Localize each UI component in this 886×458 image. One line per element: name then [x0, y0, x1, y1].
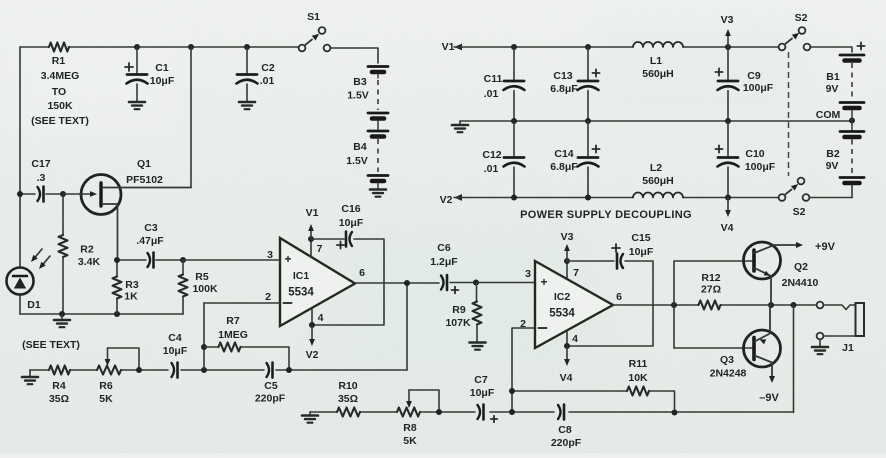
wire COM rail: [460, 118, 855, 125]
label C3: [136, 222, 164, 247]
node feedback join: [672, 410, 678, 416]
capacitor C12: [504, 121, 525, 197]
potentiometer R8: [397, 390, 439, 417]
label C4: [163, 332, 188, 357]
wire IC1 pin4: [311, 308, 313, 325]
node R6 out: [136, 367, 142, 373]
switch S2 lower: [779, 178, 810, 201]
capacitor C10: [715, 121, 738, 197]
ground C1: [129, 102, 145, 109]
jack J1 tip: [817, 302, 856, 310]
V4 arrow rail: [721, 198, 734, 235]
battery B4: [368, 120, 388, 181]
ground J1: [812, 340, 828, 355]
label R2: [78, 244, 101, 269]
wire bottom-left rail: [20, 311, 183, 317]
resistor R10: [337, 408, 360, 417]
label L2: [642, 162, 674, 187]
resistor R3: [113, 260, 122, 314]
ground R9: [470, 343, 486, 350]
label R9: [445, 304, 471, 329]
wire IC1 pin2: [204, 302, 280, 304]
label IC2 pin7: [573, 267, 579, 279]
V1 arrow IC1: [306, 207, 319, 239]
label power supply decoupling: [520, 209, 692, 221]
capacitor C1: [125, 47, 148, 101]
label S2 lower: [793, 206, 806, 218]
label R6: [99, 380, 113, 405]
resistor R12: [699, 301, 721, 310]
node R8 right: [436, 409, 442, 415]
node Q1 gate: [60, 191, 66, 197]
label Q3: [710, 354, 747, 380]
label C15: [629, 232, 654, 258]
label IC1 pin6: [359, 267, 365, 279]
label R8: [403, 422, 417, 447]
label C2: [260, 62, 275, 87]
label B2: [826, 148, 840, 172]
label C16: [339, 203, 364, 229]
inductor L2: [633, 193, 683, 198]
wire S1 to B3: [330, 48, 378, 63]
inductor L1: [633, 42, 683, 47]
capacitor C8: [558, 405, 564, 420]
node feedback out: [791, 302, 797, 308]
wire top PS rail: [462, 44, 779, 50]
label IC1 pin4: [318, 312, 324, 324]
wire feedback IC1: [406, 283, 408, 370]
battery B2: [840, 132, 864, 184]
wire IC2 pin7: [566, 261, 568, 278]
op-amp IC2: [535, 261, 613, 348]
label C1: [150, 62, 175, 87]
wire Q1 drain up: [190, 47, 192, 188]
label R10: [338, 380, 358, 405]
wire IC1 pin3: [183, 259, 280, 261]
transistor Q3: [744, 305, 781, 383]
node C5 right: [286, 367, 292, 373]
op-amp IC1: [280, 238, 355, 326]
capacitor C15: [567, 244, 653, 346]
ground B4: [370, 183, 386, 197]
capacitor C4: [172, 363, 178, 378]
node C17 left: [17, 191, 23, 197]
label C17: [31, 158, 50, 184]
label C12: [482, 149, 501, 175]
ground C2: [239, 102, 255, 109]
resistor R9: [473, 283, 482, 342]
label COM: [816, 109, 841, 121]
wire C7C8 row: [439, 305, 794, 413]
label C7: [470, 374, 495, 399]
label B4: [346, 141, 368, 167]
wire driver base vertical: [673, 261, 675, 348]
wire S2 to B1: [810, 42, 865, 52]
label IC2 pin2: [520, 318, 526, 330]
capacitor C11: [504, 47, 525, 121]
capacitor C5: [267, 363, 273, 378]
label C13: [550, 70, 578, 95]
label D1: [27, 299, 41, 311]
label see-text-2: [22, 339, 80, 351]
label IC2 pin3: [525, 268, 531, 280]
label S1: [307, 11, 320, 23]
capacitor C3: [117, 253, 183, 268]
capacitor C17: [20, 187, 60, 202]
label B3: [347, 76, 369, 102]
label Q1: [126, 158, 163, 186]
resistor R4: [49, 366, 70, 375]
V4 arrow IC2: [560, 346, 573, 384]
label C5: [255, 380, 286, 405]
label C14: [550, 148, 578, 173]
switch S2 link: [788, 52, 790, 176]
label IC1 pin7: [317, 243, 323, 255]
battery B3: [368, 67, 388, 119]
label C6: [430, 242, 458, 268]
wire bottom PS rail: [462, 195, 852, 201]
wire R11 row: [512, 391, 675, 413]
wire B2 to rail: [851, 185, 853, 198]
label +9V: [815, 241, 836, 253]
capacitor C7: [478, 405, 498, 423]
label -9V: [759, 392, 779, 404]
wire R4 row: [30, 369, 407, 371]
label L1: [642, 55, 674, 80]
V2 arrow IC1: [306, 325, 319, 361]
resistor R7: [204, 343, 289, 371]
label C10: [745, 148, 776, 173]
label B1: [826, 71, 840, 95]
label R11: [628, 358, 648, 384]
wire IC1 pin7: [310, 239, 312, 257]
V3 arrow IC2: [561, 231, 574, 261]
node IC2 pin7: [564, 258, 570, 264]
capacitor C6: [441, 275, 458, 293]
node Q2 emitter: [768, 302, 774, 308]
node C3 left: [114, 257, 120, 263]
transistor Q2: [744, 242, 804, 305]
V3 arrow rail: [721, 14, 734, 47]
label C9: [743, 70, 774, 94]
node C3 right: [180, 257, 186, 263]
wire Q2 base: [674, 260, 752, 262]
node IC1 pin7: [308, 236, 314, 242]
node output-R12: [671, 302, 677, 308]
label C8: [551, 424, 582, 449]
label IC2 pin6: [616, 291, 622, 303]
label IC1 pin2: [265, 291, 271, 303]
jack J1 sleeve: [817, 333, 856, 340]
ground R10: [302, 412, 318, 423]
node C4 right: [201, 367, 207, 373]
wire top-left rail: [20, 44, 299, 50]
label R3: [124, 279, 139, 303]
resistor R1: [49, 43, 69, 52]
label S2 upper: [795, 12, 808, 24]
capacitor C16: [311, 232, 384, 326]
photodiode D1: [7, 249, 51, 295]
label R1 value: [31, 55, 89, 127]
node C7 right: [509, 409, 515, 415]
potentiometer R6: [97, 348, 139, 375]
label R4: [49, 380, 69, 405]
jack J1 plug: [856, 303, 865, 336]
capacitor C9: [715, 47, 738, 121]
label R7: [218, 315, 248, 341]
node R7 left: [201, 344, 207, 350]
label R12: [701, 272, 721, 296]
label J1: [842, 342, 854, 354]
resistor R5: [179, 260, 188, 314]
resistor R11: [627, 387, 649, 396]
wire IC2 pin4: [566, 330, 568, 346]
wire IC2 output: [613, 304, 816, 306]
ground bottom-left: [54, 314, 70, 327]
wire IC2 pin2: [512, 328, 535, 412]
label Q2: [782, 261, 819, 289]
battery B1: [840, 55, 864, 108]
node IC1 pin4: [309, 322, 315, 328]
wire COM to battery: [851, 110, 853, 130]
ground R4: [22, 370, 38, 384]
label V1 rail: [442, 41, 462, 53]
wire IC1 output: [355, 282, 535, 285]
switch S2 upper: [779, 27, 811, 50]
wire pin2 vertical: [203, 303, 205, 370]
capacitor C14: [578, 121, 600, 197]
label IC1 pin3: [267, 249, 273, 261]
label IC2 pin4: [572, 333, 578, 345]
node R9 top: [473, 280, 479, 286]
node IC1 output: [404, 280, 410, 286]
label V2 rail: [440, 194, 462, 206]
wire R10 row: [310, 411, 439, 413]
resistor R2: [59, 194, 68, 314]
capacitor C13: [578, 47, 600, 121]
capacitor C2: [237, 47, 258, 101]
ground COM rail: [452, 121, 468, 132]
wire Q3 base: [674, 347, 752, 349]
label C11: [484, 73, 503, 100]
node R11 left: [509, 388, 515, 394]
transistor Q1: [63, 175, 191, 258]
label R5: [192, 271, 218, 295]
node IC2 pin4: [564, 343, 570, 349]
switch S1: [299, 27, 331, 51]
wire left vertical: [19, 47, 21, 314]
